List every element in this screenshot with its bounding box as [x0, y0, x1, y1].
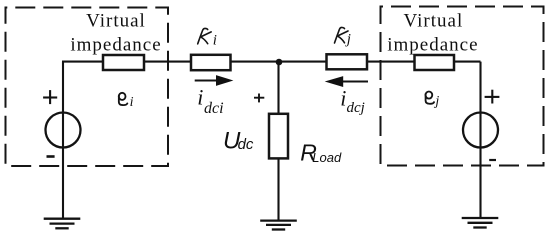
svg-text:i: i: [340, 86, 346, 111]
svg-text:i: i: [213, 32, 217, 48]
svg-text:dc: dc: [238, 136, 254, 153]
svg-text:Virtual: Virtual: [86, 11, 146, 32]
svg-text:i: i: [197, 84, 203, 109]
svg-text:impedance: impedance: [70, 35, 161, 56]
svg-text:dcj: dcj: [347, 100, 365, 116]
svg-text:Virtual: Virtual: [404, 11, 464, 32]
svg-text:i: i: [130, 95, 134, 110]
svg-text:dci: dci: [204, 100, 224, 117]
svg-text:impedance: impedance: [387, 35, 478, 56]
svg-text:Load: Load: [312, 150, 342, 165]
